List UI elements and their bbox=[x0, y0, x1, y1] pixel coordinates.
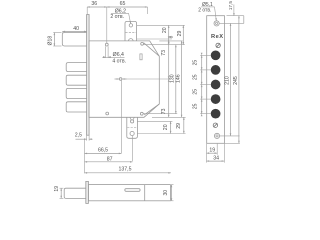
dim chain 25x4 bbox=[192, 53, 202, 117]
svg-text:25: 25 bbox=[192, 89, 198, 95]
top mounting tab bbox=[125, 21, 137, 41]
top tab center dash bbox=[125, 31, 136, 33]
svg-text:73: 73 bbox=[161, 50, 167, 56]
dim 20 bottom bbox=[163, 121, 172, 133]
bottom tab notch bbox=[130, 117, 134, 123]
ext line bolt hole 1 bbox=[200, 54, 211, 56]
deadbolt 5 bbox=[66, 102, 86, 112]
dim 34 plate bbox=[207, 156, 225, 162]
svg-text:25: 25 bbox=[192, 74, 198, 80]
ext line bolt hole 2 bbox=[200, 69, 211, 71]
ext line fix hole top level bbox=[144, 44, 185, 46]
plate top screw hole bbox=[214, 21, 219, 26]
ext line keyhole vertical bbox=[120, 81, 122, 154]
ext 2.5 down bbox=[84, 139, 86, 173]
dim 73 lower bbox=[161, 79, 170, 117]
side view faceplate bbox=[86, 181, 89, 203]
REX logo bbox=[211, 34, 224, 40]
bolt hole 4 (plate) bbox=[211, 94, 221, 104]
lock body outline bbox=[89, 41, 159, 117]
slash symbol top bbox=[216, 43, 220, 47]
side view slot bbox=[125, 189, 140, 192]
svg-text:40: 40 bbox=[73, 26, 79, 32]
svg-text:Ø18: Ø18 bbox=[48, 36, 54, 46]
deadbolt 1 (d18) bbox=[62, 33, 86, 47]
faceplate strip (front view) bbox=[87, 15, 90, 136]
dim 29 bottom bbox=[176, 117, 185, 133]
svg-text:25: 25 bbox=[192, 103, 198, 109]
ext line bottom tab hole level bbox=[138, 133, 186, 135]
svg-text:34: 34 bbox=[213, 156, 219, 162]
side view seam line bbox=[144, 185, 146, 201]
ext line bottom notch level bbox=[138, 120, 173, 122]
ext line body top level bbox=[159, 40, 182, 42]
deadbolt 2 bbox=[66, 63, 86, 72]
ext 19/34 mid bbox=[216, 144, 218, 155]
svg-text:2 отв.: 2 отв. bbox=[110, 14, 124, 20]
label d6.4 4 holes bbox=[102, 46, 126, 64]
side view bolt bbox=[64, 188, 86, 198]
dim 137.5 bbox=[85, 166, 172, 173]
svg-text:65: 65 bbox=[120, 1, 126, 7]
ext line bolt hole 4 bbox=[200, 98, 211, 100]
svg-text:66,5: 66,5 bbox=[98, 147, 108, 153]
label d6.2 2 holes bbox=[110, 8, 131, 23]
fixing hole d6.4 #3 bbox=[106, 112, 109, 115]
deadbolt 3 bbox=[66, 75, 86, 85]
svg-text:8: 8 bbox=[169, 35, 175, 38]
ext line 65 right bbox=[147, 7, 149, 14]
svg-text:36: 36 bbox=[91, 1, 97, 7]
svg-text:73: 73 bbox=[161, 108, 167, 114]
ext line tab hole vertical bbox=[132, 136, 134, 161]
bolt hole 3 (plate) bbox=[211, 80, 221, 90]
svg-text:19: 19 bbox=[209, 148, 215, 154]
slot bbox=[140, 54, 142, 60]
ext 40 left bbox=[62, 32, 64, 33]
svg-text:29: 29 bbox=[177, 31, 183, 37]
ext line fix hole bottom level bbox=[143, 113, 177, 115]
bolt hole 5 (plate) bbox=[211, 109, 221, 119]
bottom-right corner diagonal bbox=[144, 104, 159, 115]
fixing hole d6.4 #2 bbox=[141, 42, 144, 45]
svg-text:2,5: 2,5 bbox=[75, 133, 82, 139]
bolt hole 2 (plate) bbox=[211, 65, 221, 75]
fixing hole d6.4 #4 bbox=[140, 112, 143, 115]
dim 19 plate bbox=[207, 148, 218, 154]
dim 87 bbox=[85, 156, 133, 162]
ext plate bottom hole bbox=[220, 135, 240, 137]
svg-text:Ø6,4: Ø6,4 bbox=[113, 52, 124, 58]
keyhole bbox=[115, 78, 127, 81]
ext line keyhole level bbox=[123, 78, 171, 80]
dim 210 bbox=[225, 23, 232, 135]
plate bottom screw hole bbox=[214, 133, 219, 138]
svg-text:29: 29 bbox=[176, 123, 182, 129]
top-right corner diagonal bbox=[144, 43, 160, 56]
svg-text:20: 20 bbox=[162, 27, 168, 33]
svg-text:4 отв.: 4 отв. bbox=[112, 58, 126, 64]
deadbolt 4 bbox=[66, 88, 86, 98]
bolt hole 1 (plate) bbox=[211, 50, 221, 60]
dim 29 top bbox=[177, 25, 184, 44]
svg-text:17,5: 17,5 bbox=[228, 1, 234, 11]
dim 146 bbox=[175, 41, 182, 117]
ext line body bottom level bbox=[152, 116, 186, 118]
svg-text:245: 245 bbox=[233, 76, 239, 85]
dim 30 side bbox=[163, 185, 173, 201]
slash symbol bottom bbox=[213, 123, 217, 127]
ext line tab hole level bbox=[137, 24, 185, 26]
ext line bolt hole 5 bbox=[200, 113, 211, 115]
dim 65 bbox=[107, 1, 148, 8]
dim 2.5 bbox=[75, 133, 93, 141]
svg-text:30: 30 bbox=[163, 190, 169, 196]
svg-text:87: 87 bbox=[107, 156, 113, 162]
dim 20 top bbox=[162, 25, 170, 39]
side view body bbox=[88, 185, 170, 201]
svg-text:25: 25 bbox=[192, 60, 198, 66]
dim 17.5 bbox=[220, 1, 244, 24]
label d5.1 2 holes bbox=[198, 2, 217, 21]
dim 66.5 bbox=[85, 147, 122, 154]
dim 36 bbox=[87, 1, 107, 8]
ext line notch level bbox=[137, 38, 172, 40]
fixing hole d6.4 #1 bbox=[105, 43, 108, 46]
ext line hole centre / 36-65 junction bbox=[106, 7, 108, 43]
bottom tab hole bbox=[130, 131, 134, 135]
top tab notch arc bbox=[129, 39, 134, 41]
dim 40 bbox=[63, 26, 87, 32]
svg-text:146: 146 bbox=[175, 74, 181, 83]
ext 19/34 left bbox=[206, 144, 208, 163]
ext line bolt hole 3 bbox=[200, 84, 211, 86]
svg-text:210: 210 bbox=[225, 76, 231, 85]
ext plate bottom right bbox=[225, 142, 240, 144]
svg-text:ReX: ReX bbox=[211, 34, 224, 40]
dim 245 bbox=[233, 16, 240, 144]
dim 130 bbox=[170, 45, 177, 114]
svg-text:137,5: 137,5 bbox=[119, 166, 132, 172]
ext 19/34 right bbox=[223, 144, 225, 163]
dim 73 upper bbox=[161, 41, 170, 79]
bottom tab center dash bbox=[127, 127, 137, 129]
top tab hole bbox=[129, 24, 132, 27]
svg-text:19: 19 bbox=[54, 186, 60, 192]
dim 8 top bbox=[168, 35, 175, 44]
bottom mounting tab bbox=[127, 117, 138, 138]
svg-text:2 отв.: 2 отв. bbox=[198, 8, 211, 14]
dim 19 side bbox=[54, 186, 63, 199]
dim d18 bbox=[48, 33, 62, 47]
strike plate outline bbox=[207, 16, 225, 144]
svg-text:20: 20 bbox=[163, 124, 169, 130]
ext line 36/65 left bbox=[86, 7, 88, 15]
